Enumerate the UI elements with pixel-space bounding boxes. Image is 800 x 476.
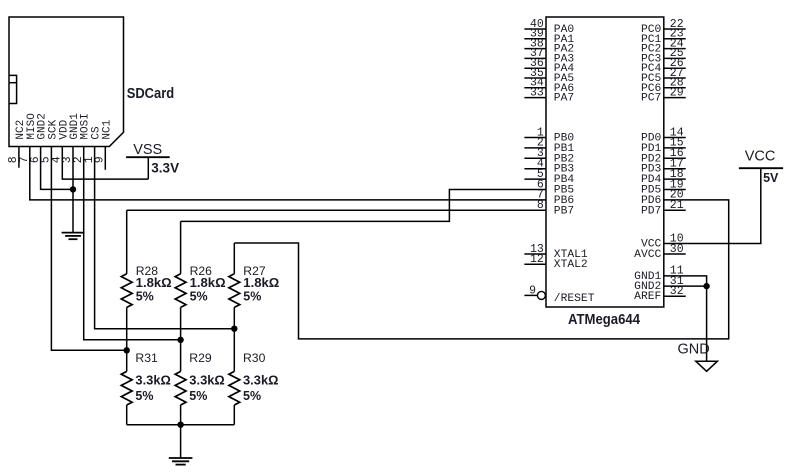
svg-text:3.3V: 3.3V	[151, 160, 179, 175]
svg-text:21: 21	[670, 199, 684, 212]
IC pin 15 PD1	[641, 137, 686, 155]
label R26	[190, 264, 213, 278]
wire resistor network bottom rail	[127, 424, 235, 426]
SDCard pin 1 number	[83, 156, 96, 163]
IC pin 1 PB0	[524, 126, 574, 144]
label R28	[136, 264, 159, 278]
svg-text:PC7: PC7	[641, 93, 661, 105]
IC pin 17 PD3	[641, 158, 686, 176]
svg-text:PB7: PB7	[554, 205, 574, 217]
power symbol VCC rail	[739, 167, 783, 169]
label VCC	[745, 149, 776, 165]
power symbol VSS rail	[126, 156, 170, 158]
IC pin 29 PC7	[641, 86, 686, 104]
label R29 tolerance	[189, 389, 207, 403]
SDCard pin 3 number	[61, 156, 74, 163]
svg-text:30: 30	[670, 243, 684, 256]
label R27 tolerance	[243, 290, 261, 304]
SDCard pin 5 label SCK	[47, 119, 59, 139]
label R26 value	[190, 276, 226, 290]
IC pin 5 PB4	[524, 168, 574, 186]
IC pin 4 PB3	[524, 158, 574, 176]
IC pin 21 PD7	[641, 199, 686, 217]
IC pin 31 GND2	[634, 275, 684, 293]
SDCard pin 9 label NC1	[101, 119, 113, 139]
IC pin 11 GND1	[634, 265, 684, 283]
IC pin 26 PC4	[641, 57, 686, 75]
wire GND1 (SD pin3 to ground)	[72, 147, 74, 233]
IC pin 7 PB6	[537, 189, 574, 207]
wire rail to ground	[180, 425, 182, 458]
IC pin 34 PA6	[524, 77, 574, 95]
svg-text:5%: 5%	[136, 290, 154, 304]
SDCard pin 1 label CS	[91, 126, 103, 140]
SD card write-protect tab	[9, 75, 17, 103]
svg-text:AVCC: AVCC	[634, 249, 661, 261]
IC pin 6 PB5	[537, 178, 574, 196]
IC pin 9 /RESET	[524, 285, 594, 305]
svg-text:33: 33	[530, 86, 544, 99]
wire MISO (SD pin7 to PB6)	[30, 147, 546, 200]
SDCard pin 5 number	[40, 156, 53, 163]
IC pin 37 PA3	[524, 47, 574, 65]
label SDCard	[127, 86, 175, 102]
label R29 value	[189, 374, 225, 388]
svg-text:5%: 5%	[243, 389, 261, 403]
label R29	[189, 351, 212, 365]
IC pin 27 PC5	[641, 67, 686, 85]
svg-text:R31: R31	[135, 351, 158, 365]
svg-text:PA7: PA7	[554, 93, 574, 105]
wire VSS rail to VDD	[147, 157, 149, 179]
svg-text:1.8kΩ: 1.8kΩ	[243, 276, 279, 290]
IC pin 35 PA5	[524, 67, 574, 85]
junction R26/R29 node	[177, 337, 183, 343]
IC pin 38 PA2	[524, 37, 574, 55]
SDCard pin 3 label GND1	[69, 113, 81, 140]
SDCard pin 4 number	[51, 156, 64, 163]
svg-text:/RESET: /RESET	[554, 293, 595, 305]
IC pin 2 PB1	[524, 137, 574, 155]
IC pin 23 PC1	[641, 28, 686, 46]
IC pin 12 XTAL2	[524, 253, 587, 271]
wire GND2 (SD pin6 to GND1 node)	[41, 147, 73, 190]
wire GND1 pin to ground	[664, 276, 707, 361]
label 5V	[763, 171, 779, 185]
SDCard pin 8 number	[7, 156, 20, 163]
label R27	[243, 264, 266, 278]
svg-text:5%: 5%	[243, 290, 261, 304]
SDCard pin 8 label NC2	[15, 120, 27, 140]
IC pin 18 PD4	[641, 168, 686, 186]
label R31 tolerance	[135, 389, 153, 403]
junction bottom rail	[177, 422, 183, 428]
IC pin 8 PB7	[537, 199, 574, 217]
svg-text:VSS: VSS	[133, 142, 162, 158]
svg-text:GND: GND	[678, 342, 710, 358]
resistor R30 (3.3k)	[229, 329, 240, 425]
svg-text:5V: 5V	[763, 171, 779, 185]
SDCard pin 2 label MOSI	[80, 113, 92, 139]
IC pin 24 PC2	[641, 37, 686, 55]
wire R27 top to PD6	[234, 200, 728, 339]
label R31	[135, 351, 158, 365]
IC pin 30 AVCC	[634, 243, 686, 261]
label ATMega644	[568, 312, 640, 328]
ground (resistor network)	[169, 458, 193, 465]
SDCard pin 4 label VDD	[58, 119, 70, 139]
label 3.3V	[151, 160, 179, 175]
IC pin 10 VCC	[641, 232, 684, 250]
resistor R31 (3.3k)	[121, 350, 132, 424]
IC pin 33 PA7	[524, 86, 574, 104]
label R27 value	[243, 276, 279, 290]
SDCard pin 8 NC2 stub	[18, 147, 20, 168]
IC pin 36 PA4	[524, 57, 574, 75]
label GND	[678, 342, 710, 358]
IC pin 19 PD5	[641, 178, 686, 196]
wire R28 top to PB7	[127, 209, 546, 211]
IC pin 13 XTAL1	[524, 243, 588, 261]
ground (ATMega, triangle)	[696, 361, 718, 371]
IC pin 14 PD0	[641, 126, 686, 144]
SDCard pin 7 label MISO	[26, 113, 38, 140]
svg-text:AREF: AREF	[634, 291, 661, 303]
IC pin 28 PC6	[641, 77, 686, 95]
SDCard pin 2 number	[72, 156, 85, 163]
svg-text:3.3kΩ: 3.3kΩ	[135, 374, 171, 388]
svg-text:12: 12	[530, 253, 544, 266]
connector J1 SDCard body	[9, 17, 124, 147]
svg-text:5%: 5%	[190, 290, 208, 304]
svg-text:PD7: PD7	[641, 205, 661, 217]
svg-text:R30: R30	[243, 351, 266, 365]
SDCard pin 6 label GND2	[37, 113, 49, 139]
IC U1 ATMega644 body	[546, 17, 664, 307]
svg-text:8: 8	[537, 199, 544, 212]
IC pin 20 PD6	[641, 189, 684, 207]
label R30 value	[243, 374, 279, 388]
svg-text:3.3kΩ: 3.3kΩ	[243, 374, 279, 388]
svg-text:NC1: NC1	[101, 119, 113, 139]
label VSS	[133, 142, 162, 158]
resistor R27 (1.8k)	[229, 243, 240, 329]
wire MOSI (SD pin2 to R26/R29 node)	[84, 147, 181, 340]
svg-text:XTAL2: XTAL2	[554, 259, 588, 271]
svg-text:29: 29	[670, 86, 684, 99]
junction SD ground node	[70, 186, 76, 192]
wire CS (SD pin1 to R27/R30 node)	[95, 147, 235, 329]
svg-text:9: 9	[529, 285, 536, 298]
junction R28/R31 node	[124, 347, 130, 353]
svg-text:1.8kΩ: 1.8kΩ	[190, 276, 226, 290]
IC pin 16 PD2	[641, 147, 686, 165]
IC pin 22 PC0	[641, 18, 686, 36]
resistor R26 (1.8k)	[175, 221, 186, 339]
svg-text:32: 32	[670, 285, 684, 298]
IC pin 40 PA0	[524, 18, 574, 36]
junction GND node	[703, 283, 709, 289]
label R28 tolerance	[136, 290, 154, 304]
label R28 value	[136, 276, 172, 290]
wire VCC pin to 5V rail	[664, 168, 761, 243]
IC pin 32 AREF	[634, 285, 686, 303]
svg-text:ATMega644: ATMega644	[568, 312, 640, 328]
SDCard pin 9 number	[94, 156, 107, 163]
SDCard pin 6 number	[29, 156, 42, 163]
IC pin 39 PA1	[524, 28, 574, 46]
resistor R29 (3.3k)	[175, 340, 186, 425]
wire R26 top to PB5	[181, 190, 546, 222]
SDCard pin 7 number	[18, 156, 31, 163]
svg-text:5%: 5%	[189, 389, 207, 403]
wire SCK (SD pin5 to R28/R31 node)	[51, 147, 126, 351]
label R26 tolerance	[190, 290, 208, 304]
wire GND2 pin to ground node	[664, 285, 707, 287]
IC pin 25 PC3	[641, 47, 686, 65]
IC pin 3 PB2	[524, 147, 574, 165]
wire VDD (SD pin4 to VSS rail)	[62, 147, 148, 180]
svg-text:VCC: VCC	[745, 149, 776, 165]
svg-text:R29: R29	[189, 351, 212, 365]
label R30	[243, 351, 266, 365]
resistor R28 (1.8k)	[121, 210, 132, 350]
svg-text:SDCard: SDCard	[127, 86, 175, 102]
svg-text:1.8kΩ: 1.8kΩ	[136, 276, 172, 290]
ground (SD card)	[62, 233, 85, 240]
svg-text:5%: 5%	[135, 389, 153, 403]
label R30 tolerance	[243, 389, 261, 403]
SDCard pin 9 NC1 stub	[104, 147, 106, 170]
label R31 value	[135, 374, 171, 388]
junction R27/R30 node	[231, 326, 237, 332]
svg-text:3.3kΩ: 3.3kΩ	[189, 374, 225, 388]
